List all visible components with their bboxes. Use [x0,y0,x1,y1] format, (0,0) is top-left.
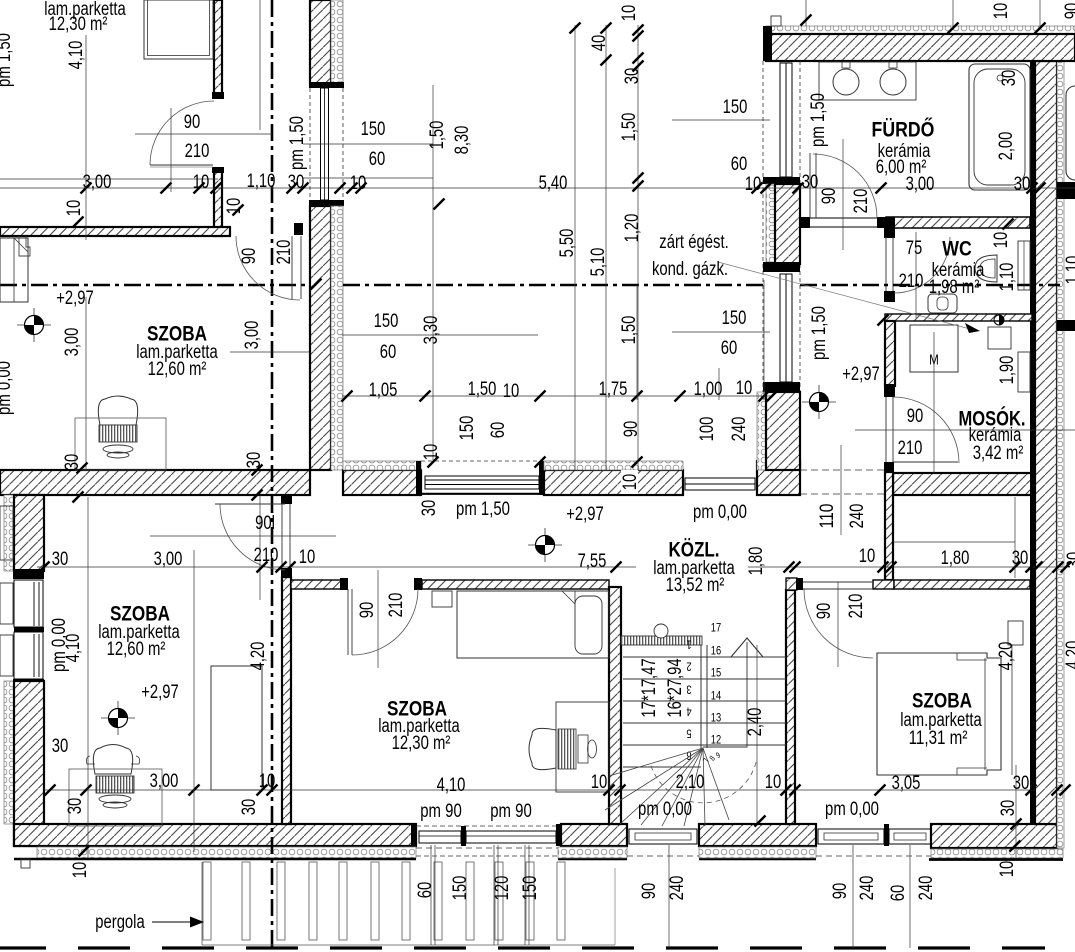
svg-text:30: 30 [52,736,69,757]
svg-text:150: 150 [450,876,471,901]
door leaf mosók open [893,461,958,463]
downpipe square [21,859,30,868]
west end cap [763,26,772,61]
pergola slats [203,862,211,940]
stair stringer right line [706,645,708,748]
svg-text:30: 30 [999,70,1020,87]
svg-text:3,00: 3,00 [62,328,83,357]
insulation strip below south wall [37,847,416,858]
svg-text:4,10: 4,10 [63,634,84,663]
svg-text:150: 150 [520,876,541,901]
svg-text:90: 90 [184,112,201,133]
svg-text:10: 10 [64,200,85,217]
stair tread line 4 [623,722,786,724]
tick on y188 [194,183,205,194]
fürdő door jamb west [799,217,810,228]
tick on y188 [1027,183,1038,194]
tick on y790 [267,785,278,796]
stair walk line with arrow [703,642,747,747]
stair winder fan lines [609,748,703,776]
wall: east party wall [1035,61,1057,824]
insulation strip [343,461,421,470]
tick on y188 [356,183,367,194]
chimney stub on top wall [771,16,781,26]
tick on y188 [287,183,298,194]
bathtub [969,64,1030,190]
stair tread line 7 left [623,766,701,768]
svg-text:210: 210 [846,594,867,619]
svg-text:240: 240 [729,417,750,442]
svg-text:1,50: 1,50 [427,121,448,150]
footing edge line mid2 [699,858,816,861]
tick on y461 line [428,457,439,468]
door arc: middle room door [352,589,418,655]
svg-text:10: 10 [70,862,91,879]
wall: central vertical wall below window [310,206,331,470]
svg-text:3: 3 [686,683,691,697]
tick on y188 [793,183,804,194]
mosók door jamb south [884,462,894,472]
svg-text:1,05: 1,05 [369,380,398,401]
svg-text:90: 90 [907,406,924,427]
wall: main horizontal wall west part [0,470,310,495]
svg-text:240: 240 [857,876,878,901]
cap below window [13,679,44,689]
wall: south outer wall segment [699,824,816,846]
WC door in opening [892,237,894,292]
misc ticks [73,217,84,228]
gas boiler with flue [994,315,1004,325]
wall: top-left room east wall lower part [214,170,222,236]
tick on y567 [1010,562,1021,573]
svg-text:30: 30 [244,452,265,469]
tick [633,61,644,72]
pergola south boundary [202,944,615,946]
svg-text:1,80: 1,80 [746,547,767,576]
svg-text:12,30 m²: 12,30 m² [392,733,451,754]
door leaf middle room [347,589,349,655]
svg-text:4,20: 4,20 [248,642,269,671]
svg-text:60: 60 [731,154,748,175]
wall: top-left room south wall [0,227,230,236]
tick on y188 [211,183,222,194]
window sill cap [309,200,344,206]
tick [633,173,644,184]
cap above window [13,569,44,579]
footing edge line west [14,858,416,861]
neighbour bathtub partial [1066,86,1075,180]
insulation layer [331,206,343,470]
wall: partition between lower-left room and middle room [282,577,291,824]
tick on y790 [615,785,626,796]
tick on y790 [81,785,92,796]
sill fragment upper [0,506,13,560]
tick [948,23,959,34]
svg-text:30: 30 [1014,174,1031,195]
party wall insulation column [1057,61,1064,848]
dimension line row y=567 [37,566,636,568]
tick on y567 [878,562,889,573]
auxiliary line y179 [0,178,218,180]
tick on y188 [761,183,772,194]
wall: stairwell west wall [609,587,621,824]
tick [1035,23,1046,34]
glazing line [425,479,539,481]
stair stringer left line [700,645,702,748]
svg-text:12,30 m²: 12,30 m² [49,14,108,35]
glazing line 2 [425,484,539,486]
tick on y790 [1026,785,1037,796]
wall: MOSÓK west wall upper [885,321,895,386]
svg-text:8,30: 8,30 [452,126,473,155]
svg-text:1: 1 [686,638,691,652]
insulation: top wall [766,26,1075,34]
stair tread line 5 [623,744,786,746]
dimension line row y=790 [44,789,1035,791]
mosók door leaf closed [885,397,887,462]
line y352 window aux [230,351,309,353]
svg-text:40: 40 [589,35,610,52]
svg-text:4: 4 [686,705,691,719]
svg-text:240: 240 [667,876,688,901]
svg-text:150: 150 [374,311,399,332]
svg-text:1,20: 1,20 [622,214,643,243]
wall: west wall segment between windows [775,184,800,264]
svg-text:5: 5 [686,727,691,741]
tick on y790 [1060,785,1071,796]
section line horizontal west part [0,284,310,287]
stair tread line 2 [623,678,786,680]
extension line x260 lower [259,495,261,600]
svg-text:+2,97: +2,97 [842,364,880,385]
svg-text:75: 75 [906,238,923,259]
cap [763,177,800,184]
step detail at wall corner upper-left room [19,236,30,256]
svg-text:pm 1,50: pm 1,50 [456,499,510,520]
tick on y188 [752,183,763,194]
footing edge line mid [558,858,627,861]
MOSÓK radiator [1018,352,1030,392]
svg-text:pm 0,00: pm 0,00 [825,799,879,820]
extension/chain lines [85,35,87,240]
svg-text:30: 30 [288,172,305,193]
svg-text:1,50: 1,50 [619,113,640,142]
tick on y567 [285,562,296,573]
window head dashed [416,825,558,827]
tick [601,55,612,66]
svg-text:120: 120 [492,876,513,901]
svg-text:10: 10 [991,232,1012,249]
dashed under window [627,855,699,857]
exterior window sills west edge [0,583,13,624]
svg-text:4,20: 4,20 [1063,641,1075,670]
svg-text:210: 210 [386,593,407,618]
svg-text:4,10: 4,10 [66,41,87,70]
desk with computer middle room [556,702,609,792]
wall: corridor east closet wall [885,472,893,580]
door leaf fürdő [809,153,811,218]
fürdő door dim line vertical [842,139,844,250]
svg-text:210: 210 [851,189,872,214]
stair tread line 3 [623,700,786,702]
door leaf right room [803,581,873,583]
wall: middle room north partition west part [291,580,341,589]
stair top landing strip [621,636,702,645]
svg-text:90: 90 [639,883,660,900]
wall end cap [212,92,224,99]
tick on y396 [342,391,353,402]
svg-text:240: 240 [847,504,868,529]
tick on y188 [161,183,172,194]
door open line 90l [215,503,285,505]
svg-text:pergola: pergola [95,912,145,933]
tick on y396 [759,391,770,402]
svg-text:+2,97: +2,97 [56,288,94,309]
terrace door threshold pm 0,00 [685,478,755,490]
WC door dim line [915,232,917,318]
tick on y790 [45,785,56,796]
dimension line row y=188 (full width) [0,187,1075,189]
window pm1,50 bath west upper [780,63,792,177]
tick on y188 [347,183,358,194]
WC corner cap [884,217,895,238]
window head dashed [421,460,539,462]
tick on y567 [1032,562,1043,573]
svg-text:FÜRDŐ: FÜRDŐ [872,119,935,142]
svg-text:+2,97: +2,97 [141,682,179,703]
svg-text:pm 1,50: pm 1,50 [808,93,829,147]
svg-text:90: 90 [1062,3,1075,20]
svg-text:10: 10 [745,174,762,195]
door arc: upper-left room [236,236,300,300]
svg-text:10: 10 [259,771,276,792]
window jamb dashed [342,88,344,200]
cap [763,262,800,272]
wall: stairwell east wall [786,590,795,824]
svg-text:kond. gázk.: kond. gázk. [652,259,728,280]
svg-text:1,10: 1,10 [997,263,1018,292]
wall: west wall of hall branch lower segment [766,392,800,470]
tick on y188 [81,183,92,194]
svg-text:2,00: 2,00 [996,132,1017,161]
svg-text:4,10: 4,10 [437,775,466,796]
door jamb [340,578,348,590]
svg-text:10: 10 [620,474,641,491]
extension line x260 [259,0,261,130]
svg-text:1,10: 1,10 [247,171,276,192]
wall: south outer wall west segment [14,824,416,846]
svg-text:11,31 m²: 11,31 m² [909,728,968,749]
svg-text:16*27,94: 16*27,94 [665,658,686,718]
svg-text:30: 30 [1012,548,1029,569]
door 90l leaf [289,504,291,568]
window pm0,00 below stairwell [629,829,697,844]
svg-text:12,60 m²: 12,60 m² [148,359,207,380]
door arc: MOSÓK door [893,397,959,463]
tick on y790 [781,785,792,796]
mosók door dim line [855,429,1075,431]
wall: right room north partition [894,580,1030,589]
svg-text:100: 100 [697,417,718,442]
mosók door dim line vertical [933,332,935,474]
svg-text:90: 90 [819,188,840,205]
tick on y188 [876,183,887,194]
svg-text:10: 10 [591,772,608,793]
window jamb cap [416,461,421,495]
svg-text:10: 10 [859,546,876,567]
svg-text:2,40: 2,40 [745,708,766,737]
WC toilet [928,294,957,313]
svg-text:10: 10 [765,772,782,793]
insulation strip below south wall 2 [558,847,627,858]
door arc: top-left room [150,101,214,165]
svg-text:210: 210 [274,240,295,265]
window pm1,50 in south wall of terrace [425,476,539,489]
door leaf upper-left room [291,236,293,299]
svg-text:30: 30 [998,800,1019,817]
svg-text:2,10: 2,10 [676,772,705,793]
window mullion [461,826,466,846]
wall: main horizontal wall, segment with insulation [343,470,421,495]
party wall inner face [1030,61,1035,824]
svg-text:pm 90: pm 90 [490,801,532,822]
washing machine M [910,325,958,372]
svg-text:90l: 90l [255,513,275,534]
door arc: right room door [804,589,873,658]
svg-text:90: 90 [239,248,260,265]
nightstand middle room [432,591,452,607]
tick [601,23,612,34]
tick on y567 [1061,562,1072,573]
section line vertical [271,0,274,952]
WC washbasin [975,255,997,282]
svg-text:3,00: 3,00 [242,321,263,350]
wall: closet wall foot [873,580,894,589]
tick on y188 [1035,183,1046,194]
svg-text:15: 15 [711,665,722,679]
WC door jamb south [884,291,895,302]
svg-text:17: 17 [711,620,722,634]
svg-text:210: 210 [185,141,210,162]
stair handrail post [654,624,668,638]
footing edge line [929,858,1063,861]
svg-text:pm 0,00: pm 0,00 [693,502,747,523]
svg-text:pm 1,50: pm 1,50 [809,306,830,360]
svg-text:3,00: 3,00 [83,172,112,193]
window jamb cap [539,461,544,495]
bed top-left room [144,0,213,59]
svg-text:30: 30 [65,798,86,815]
svg-text:210: 210 [254,545,279,566]
svg-text:10: 10 [299,547,316,568]
window glazing line [324,88,326,200]
wall: corner block at terrace door [757,461,800,495]
svg-text:16: 16 [711,643,722,657]
window pm0,00 below right room west [818,829,884,844]
property dashed line at bottom [0,946,46,949]
tick on y396 [767,391,778,402]
svg-text:1,80: 1,80 [941,548,970,569]
tick on y396 [632,391,643,402]
window jamb dashed [309,88,311,200]
window pm0,00 west wall upper [14,580,43,627]
svg-text:60: 60 [415,882,436,899]
bed sheet fold [562,591,575,604]
window sill dashed [421,493,539,495]
window head cap [309,82,344,88]
tick on y567 [611,562,622,573]
window pm90 left [419,831,461,843]
svg-text:13: 13 [711,710,722,724]
svg-text:10: 10 [421,444,442,461]
wall: north outer wall of bathroom block [766,34,1075,61]
svg-text:5,10: 5,10 [588,248,609,277]
svg-text:150: 150 [457,416,478,441]
svg-text:10: 10 [619,5,640,22]
right room door dim line [837,582,839,667]
svg-text:30: 30 [62,454,83,471]
tick on y461 line [632,457,643,468]
tick on y567 [1053,562,1064,573]
window sill dashed [416,855,558,857]
tick on y567 [790,562,801,573]
dimension line row y=396 [342,395,772,397]
svg-text:60: 60 [380,342,397,363]
furniture line right room [1011,645,1013,775]
tick on y790 [1052,785,1063,796]
svg-text:5,50: 5,50 [557,229,578,258]
wall: WC/MOSÓK partition [885,314,1032,321]
window below right room east [889,829,931,844]
svg-text:90: 90 [830,883,851,900]
svg-text:30: 30 [1013,773,1030,794]
window pm1,50 frame in central wall [321,88,329,200]
svg-text:14: 14 [711,688,722,702]
threshold line [685,483,755,485]
svg-text:1,00: 1,00 [694,379,723,400]
neighbour wall stub [1057,182,1075,199]
wall: middle room north partition east part [422,580,609,589]
svg-text:5,40: 5,40 [539,173,568,194]
svg-text:1,90: 1,90 [997,356,1018,385]
door arc: corridor to lower-left room (90l) [220,504,286,570]
wall: west outer wall lower segment [14,681,44,846]
middle door dim line [377,570,379,668]
tick [633,31,644,42]
hall passage dim line [840,445,842,535]
dashed under window 2 [816,855,931,857]
FÜRDŐ sink counter with two basins [819,62,916,100]
svg-text:3,00: 3,00 [154,549,183,570]
stair winder dashed arc [650,762,756,803]
tick [633,53,644,64]
wall bottom edge across window [420,493,544,495]
svg-text:10: 10 [224,198,245,215]
wardrobe lower-left room [211,666,262,790]
section line horizontal far east part [800,284,1060,287]
desk outline upper-left room [75,418,166,470]
wall end cap [212,167,224,173]
section line horizontal east part [343,284,766,287]
svg-text:60: 60 [369,149,386,170]
neighbour wall stub 2 [1057,320,1075,331]
wall: FÜRDŐ/WC partition [886,217,1030,228]
svg-text:7,55: 7,55 [578,551,607,572]
tick on y790 [604,785,615,796]
tick on y790 [790,785,801,796]
svg-text:2: 2 [686,660,691,674]
svg-text:1,75: 1,75 [599,379,628,400]
